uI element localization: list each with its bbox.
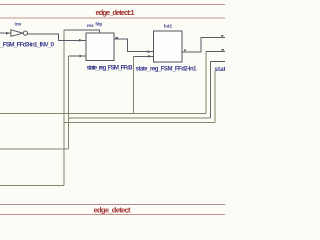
svg-text:fdp: fdp xyxy=(95,21,102,26)
wire FFd3 Q to lut2 upper input xyxy=(114,39,154,52)
svg-text:edge_detect:1: edge_detect:1 xyxy=(96,8,135,17)
flip-flop FFd3 box xyxy=(86,33,114,61)
lut2 U-lut2 box xyxy=(154,31,182,62)
svg-text:ms: ms xyxy=(87,23,94,28)
inverter INV_0 xyxy=(11,30,28,37)
wire net C-loop right exit y=61.5 xyxy=(211,61,225,63)
wire lut2 lower input horizontal xyxy=(134,55,154,57)
pin arrow lut2 I1 xyxy=(148,50,152,53)
pin arrow lut2 I0 xyxy=(148,55,152,58)
wire net C-loop bottom exit y=149 xyxy=(0,148,68,150)
wire net clk-loop vertical x=64 xyxy=(63,30,65,186)
wire inverter output to FFd3 D pin xyxy=(28,34,86,40)
pin label Q xyxy=(116,37,118,39)
wire lut2 output O to right edge xyxy=(182,37,225,52)
sheet border top line 2 xyxy=(0,17,225,19)
wire FFd3 lower-left C pin xyxy=(68,55,85,57)
wire net Q2-feedback long horizontal y=113.7 xyxy=(0,113,206,115)
sheet border bottom line 2 xyxy=(0,214,225,216)
wire net C-loop vertical x=210.7 xyxy=(210,62,212,119)
sheet border top line 1 xyxy=(0,4,225,6)
wire net Q2-feedback right exit y=51.3 xyxy=(206,50,225,52)
svg-text:edge_detect: edge_detect xyxy=(94,206,132,215)
wire net clk-loop vertical x=215 xyxy=(214,71,216,123)
svg-text:state_reg_FSM_FFd2: state_reg_FSM_FFd2 xyxy=(215,66,226,73)
wire net clk-loop bottom exit y=185.5 xyxy=(0,185,64,187)
wire net Q2-feedback branch vertical x=133.6 to lut2 xyxy=(133,56,135,113)
wire net C-loop vertical x=68.4 xyxy=(67,56,69,149)
svg-text:state_reg_FSM_FFd2-In1: state_reg_FSM_FFd2-In1 xyxy=(136,67,198,73)
wire inverter input xyxy=(0,32,11,34)
sheet border bottom line 1 xyxy=(0,204,225,206)
pin label right exit 1 xyxy=(221,35,224,37)
pin arrow FFd3 C xyxy=(80,55,84,58)
wire net clk-loop horizontal y=122.6 xyxy=(64,122,215,124)
svg-text:state_reg_FSM_FFd3: state_reg_FSM_FFd3 xyxy=(87,64,133,71)
wire net Q2-feedback vertical x=205.9 xyxy=(205,51,207,113)
wire clk top segment to FFd3 top pin xyxy=(64,30,100,33)
svg-text:inv: inv xyxy=(15,21,22,27)
pin arrow FFd3 D xyxy=(79,39,83,42)
pin label O xyxy=(184,49,186,51)
svg-text:_FSM_FFd3-In1_INV_0: _FSM_FFd3-In1_INV_0 xyxy=(0,41,54,48)
pin label right exit 2 xyxy=(221,49,224,51)
pin arrow inverter input xyxy=(6,32,10,35)
wire net C-loop horizontal y=118.2 xyxy=(68,117,210,119)
svg-text:lut2: lut2 xyxy=(164,23,173,28)
